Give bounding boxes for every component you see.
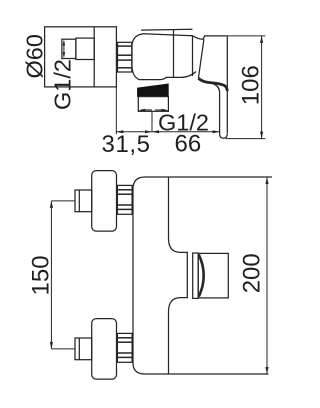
svg-text:Ø60: Ø60 [22,34,48,78]
bottom hex nut (front view) [117,333,132,362]
handle body (front view) [198,253,228,298]
top hex nut (front view) [117,185,132,214]
plate divider line [93,27,95,87]
svg-text:106: 106 [238,65,265,105]
svg-text:G1/2: G1/2 [50,59,76,110]
label G1/2 (outlet) [158,110,209,136]
shower outlet thread (solid black band) [138,84,169,97]
outlet G1/2 thread arrows [138,109,168,112]
label G1/2 (inlet, rotated) [50,59,76,110]
body (front view) outline with top/bottom extension lines [133,177,272,374]
wall plate (side view, Ø60 escutcheon block) [45,27,117,87]
dimension 106 extension + line [226,36,266,139]
top escutcheon (front view) [92,171,117,232]
inlet stub small box [62,39,76,58]
svg-text:31,5: 31,5 [102,131,151,158]
label 66 [175,131,202,158]
svg-text:150: 150 [28,255,55,295]
mixer body (side view) outline [132,29,205,79]
handle lever top edge + right edge (side view) [204,36,227,133]
shower outlet lower box [138,97,168,112]
handle hook dark underside [198,78,227,91]
hex nut (side view) [118,42,132,72]
thread diameter dimension arrow (vertical double arrow) [63,40,66,59]
svg-text:200: 200 [239,253,266,293]
inlet stub large box [76,38,94,59]
svg-text:66: 66 [175,131,202,158]
dimension 200 (body height) [265,177,268,374]
label Ø60 [22,34,48,78]
handle flange band (front view) [193,253,199,298]
top inlet stub (front view) [75,190,92,212]
body front-right edge with handle boss steps [169,177,188,374]
dimension line 66 [152,130,220,133]
left extension line (plate front face) [115,87,117,134]
handle tongue tip [220,92,228,139]
body divider line (cartridge seam) [173,29,175,77]
dimension line 31,5 [116,130,152,133]
bottom inlet stub (front view) [75,338,92,360]
label 31,5 [102,131,151,158]
outlet center extension line [151,111,153,132]
dimension 150 (between inlet centers) [50,201,75,349]
handle curved lever edge (bold arc) [199,255,204,297]
label 150 [28,255,55,295]
bottom escutcheon (front view) [92,319,117,380]
label 106 [238,65,265,105]
label 200 [239,253,266,293]
